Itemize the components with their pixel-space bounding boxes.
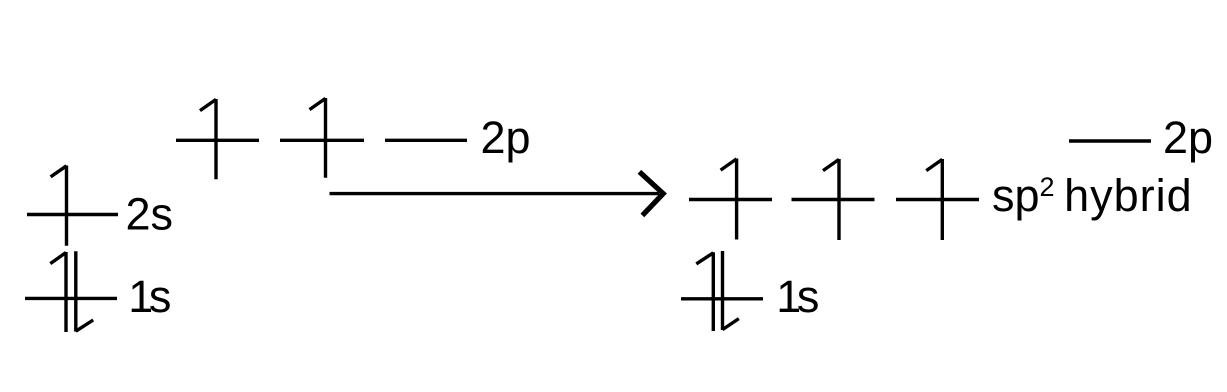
svg-text:2p: 2p [1163,112,1213,163]
svg-text:1s: 1s [776,271,819,322]
svg-text:1s: 1s [128,271,171,322]
svg-text:2p: 2p [481,112,531,163]
svg-text:2s: 2s [126,189,174,240]
svg-text:sp2 hybrid: sp2 hybrid [992,170,1193,221]
